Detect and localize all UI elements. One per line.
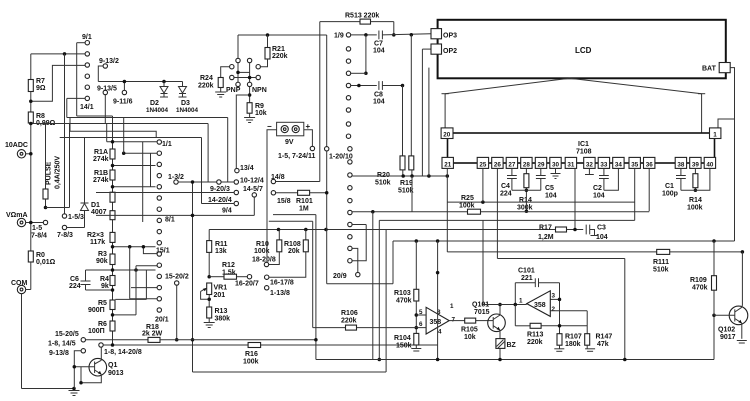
wire braid link x69.5 (69, 124, 71, 208)
resistor R21 (267, 35, 269, 48)
svg-text:20/1: 20/1 (155, 317, 169, 324)
svg-text:R6: R6 (98, 321, 107, 328)
contact 1-20/10 (325, 147, 329, 151)
svg-text:1-5, 7-24/11: 1-5, 7-24/11 (278, 153, 315, 160)
contact circle 1-5/3 (62, 214, 66, 218)
wire fan left to pin20 (444, 94, 446, 128)
ground R147 (586, 345, 588, 349)
junction D2 (162, 80, 166, 84)
svg-text:26: 26 (494, 161, 502, 168)
svg-text:21: 21 (444, 161, 452, 168)
svg-text:150k: 150k (396, 343, 412, 350)
wire VR1 bottom (208, 295, 210, 308)
wire 15/8 to R101 (276, 192, 298, 194)
pin 27 (506, 157, 517, 168)
capacitor C5 under pin29 (540, 168, 542, 175)
wire 9-13/5 down (104, 95, 106, 124)
svg-text:38: 38 (677, 161, 685, 168)
pin 34 (613, 157, 624, 168)
wire node link x136 (135, 266, 137, 315)
contact 14-20/4 (234, 190, 238, 194)
svg-text:R21: R21 (272, 46, 285, 53)
trimmer VR1 (207, 283, 212, 295)
resistor R11 (208, 230, 210, 241)
wire Q102 emitter down (741, 323, 743, 339)
wire col C 260 stub (352, 225, 366, 261)
wire C6 top node (86, 269, 156, 271)
wire braid H1 y117.5 (67, 117, 228, 119)
svg-text:R4: R4 (100, 276, 109, 283)
ground under pin30 (555, 168, 557, 173)
wire x70.7 braid link (69, 118, 71, 132)
wire 9/1 to left (77, 42, 85, 44)
contact circle 7-8/3 (62, 225, 66, 229)
wire y98.4 stub 14/1 (67, 97, 85, 99)
svg-text:274k: 274k (93, 156, 109, 163)
svg-text:9013: 9013 (108, 370, 124, 377)
svg-text:220k: 220k (341, 318, 357, 325)
svg-text:R113: R113 (527, 332, 543, 339)
wire 9-11/6 up (123, 82, 125, 91)
svg-text:C1: C1 (665, 183, 674, 190)
wire battery plus (304, 130, 313, 147)
svg-text:1: 1 (713, 132, 717, 139)
wire x714 up to Q102 base (713, 315, 715, 359)
svg-text:14/8: 14/8 (271, 174, 285, 181)
svg-text:6: 6 (419, 321, 423, 328)
svg-text:IC1: IC1 (578, 141, 589, 148)
resistor R1A (110, 149, 115, 159)
wire x365.9 vertical (365, 35, 367, 73)
contact 1-13/8 (265, 286, 269, 290)
svg-text:220k: 220k (272, 53, 288, 60)
svg-text:C101: C101 (518, 268, 535, 275)
wire Q1 base (74, 366, 94, 368)
contact 9/4 (234, 201, 238, 205)
svg-text:1N4004: 1N4004 (176, 107, 199, 114)
svg-text:2: 2 (552, 306, 556, 313)
wire Q101 collector up (499, 305, 501, 316)
svg-text:9/1: 9/1 (82, 34, 92, 41)
svg-text:33: 33 (600, 161, 608, 168)
svg-text:15/1: 15/1 (156, 248, 170, 255)
bus y202.1 (447, 201, 634, 203)
svg-text:9-13/8: 9-13/8 (49, 350, 69, 357)
svg-text:3: 3 (552, 293, 556, 300)
resistor R6 (110, 321, 115, 331)
junction 10ADC bus (29, 152, 33, 156)
IC1 box (448, 133, 715, 163)
svg-text:R513 220k: R513 220k (345, 13, 379, 20)
svg-text:34: 34 (615, 161, 623, 168)
wire LCD corner vertical (428, 68, 430, 177)
OP3 box (431, 29, 442, 39)
svg-text:9017: 9017 (720, 334, 736, 341)
svg-text:9-13/2: 9-13/2 (99, 58, 119, 65)
wire R103 to opamp chain (415, 301, 417, 333)
wire braid link x106.7 (106, 124, 108, 142)
svg-text:1/9: 1/9 (334, 33, 344, 40)
junction bottom ground (72, 387, 76, 391)
capacitor C7 (378, 31, 380, 40)
wire pin36 down (648, 168, 650, 211)
contact 15/8 (271, 191, 275, 195)
wire C7 right to OP3 (382, 34, 431, 35)
resistor R18 (148, 337, 160, 342)
svg-text:9/4: 9/4 (222, 208, 232, 215)
resistor ladder vertical wire (112, 159, 114, 170)
svg-text:13k: 13k (215, 248, 227, 255)
svg-text:1-5: 1-5 (32, 225, 42, 232)
junction fuse node (44, 206, 48, 210)
wire C6 bottom to ladder (86, 289, 113, 291)
svg-text:9V: 9V (285, 139, 294, 146)
svg-text:R16: R16 (245, 351, 258, 358)
resistor R19 (409, 156, 414, 170)
wire braid H2 y123.5 (31, 123, 208, 125)
contact circle 1-5 (43, 220, 47, 224)
wire C8 right (382, 85, 402, 87)
wire pin40 hook (681, 168, 710, 190)
wire x76.7 vertical (76, 43, 78, 116)
ground R104 (415, 345, 417, 349)
wire R19 net down (411, 176, 413, 212)
wire R106 pin6 (313, 327, 346, 329)
svg-text:R111: R111 (653, 259, 669, 266)
resistor R20 (400, 156, 405, 170)
svg-text:7108: 7108 (576, 149, 592, 156)
svg-text:20k: 20k (288, 248, 300, 255)
svg-text:16-17/8: 16-17/8 (270, 280, 294, 287)
svg-text:R1A: R1A (94, 149, 108, 156)
pin 36 (644, 157, 655, 168)
ground symbol bottom left (69, 390, 80, 392)
svg-text:180k: 180k (565, 341, 581, 348)
wire x64.5 vertical to 1-5/3 (64, 54, 66, 214)
wire col B vertical links (142, 142, 144, 222)
wire fuse bottom (45, 199, 47, 208)
transistor Q102 (729, 306, 748, 325)
wire 15-20/2 down to R18 wire (176, 285, 178, 340)
wire pin31 down to R17 node (574, 168, 576, 229)
ground symbol R9 (249, 113, 251, 117)
LCD connector fan (445, 78, 701, 93)
wire pin35 down to bus (634, 168, 636, 220)
svg-text:0,4A/250V: 0,4A/250V (55, 156, 62, 189)
svg-text:R11: R11 (215, 241, 228, 248)
wire loop y214.6 to bottom (273, 214, 316, 216)
capacitor C4 under pin27 (511, 168, 513, 175)
contact 14/8 (271, 179, 275, 183)
svg-text:R24: R24 (200, 75, 213, 82)
svg-text:Q1: Q1 (108, 362, 117, 369)
wire fan right to pin1 (701, 94, 703, 133)
pin 40 (704, 157, 715, 168)
wire opamp1 out to R105 (449, 320, 465, 322)
svg-text:104: 104 (593, 193, 605, 200)
svg-text:C6: C6 (70, 276, 79, 283)
wire R20 R19 bottoms to y176.3 (402, 170, 404, 176)
wire 1/1 horizontal (107, 141, 157, 143)
svg-text:9Ω: 9Ω (36, 85, 46, 92)
wire fuse top (45, 124, 47, 190)
resistor R5 (110, 300, 115, 310)
bus y211.3 R25 (352, 211, 467, 213)
svg-text:R0: R0 (36, 252, 45, 259)
wire BAT to pin1 rail (730, 68, 734, 241)
wire Q1 emitter loop (81, 367, 101, 383)
svg-text:7015: 7015 (474, 309, 490, 316)
wire COM to bus (26, 289, 31, 291)
wire stub row 298.8 (130, 298, 157, 300)
wire stub row 265.8 (136, 265, 157, 267)
junction ladder bottom (111, 343, 115, 347)
svg-text:274k: 274k (93, 177, 109, 184)
resistor R147 (585, 334, 590, 346)
svg-text:15-20/5: 15-20/5 (55, 331, 79, 338)
resistor R108 (305, 230, 307, 240)
svg-text:C8: C8 (374, 92, 383, 99)
svg-text:C3: C3 (597, 225, 606, 232)
wire battery minus to 18-20/8 (266, 261, 269, 264)
svg-text:9-20/3: 9-20/3 (210, 186, 230, 193)
resistor R2x3 (three in series) (110, 192, 115, 202)
wire stub row 287.6 (131, 287, 157, 289)
svg-text:R7: R7 (36, 78, 45, 85)
resistor R4 (110, 276, 115, 286)
svg-text:10ADC: 10ADC (5, 142, 28, 149)
wire x393 from 20/9 loop (392, 241, 394, 284)
wire left bus vertical (30, 54, 32, 80)
svg-text:C5: C5 (545, 185, 554, 192)
contact 16-17/8 (265, 275, 269, 279)
svg-text:4: 4 (438, 329, 442, 336)
svg-text:510k: 510k (398, 188, 414, 195)
wire ladder segments (112, 202, 114, 211)
resistor R14 100k under pin39 (694, 168, 696, 173)
wire C101 output branch vertical (559, 283, 561, 334)
resistor R7 (28, 80, 33, 92)
svg-text:OP2: OP2 (443, 48, 457, 55)
wire top y35 to socket (237, 35, 239, 58)
svg-text:104: 104 (545, 193, 557, 200)
wire R513 right vertical (393, 22, 395, 35)
svg-text:224: 224 (69, 283, 81, 290)
contact 16-20/7 (247, 275, 251, 279)
svg-text:31: 31 (567, 161, 575, 168)
svg-text:36: 36 (646, 161, 654, 168)
svg-text:1-5/3: 1-5/3 (68, 214, 84, 221)
capacitor C1 under pin38 (680, 168, 682, 175)
resistor R1B (110, 170, 115, 180)
R17 bus horizontal (209, 229, 555, 231)
wire OP2 net vertical (421, 49, 423, 176)
fuse element (43, 189, 48, 199)
wire pin34 hook to C2 (604, 168, 619, 190)
resistor R16 (248, 343, 261, 348)
svg-text:R3: R3 (98, 251, 107, 258)
svg-text:15/8: 15/8 (277, 198, 291, 205)
loop bottom y283.8 (327, 283, 393, 285)
svg-text:D3: D3 (181, 100, 190, 107)
svg-text:R13: R13 (215, 308, 228, 315)
junction VOmA bus (29, 221, 33, 225)
contact 1-5,7-24/11 (310, 146, 314, 150)
wire R113 net (514, 305, 516, 326)
svg-text:R12: R12 (222, 262, 235, 269)
svg-text:1M: 1M (299, 206, 309, 213)
svg-text:R19: R19 (400, 180, 413, 187)
diode D1 (84, 138, 86, 204)
wire R5 side hook (115, 298, 146, 300)
buzzer BZ (496, 339, 505, 349)
svg-text:R1B: R1B (94, 170, 108, 177)
contact 1-8,14-20/8 (99, 343, 103, 347)
svg-text:20/9: 20/9 (333, 273, 347, 280)
diode D2 (163, 82, 165, 87)
svg-text:100k: 100k (243, 359, 259, 366)
svg-text:100k: 100k (687, 205, 703, 212)
svg-text:10-12/4: 10-12/4 (240, 178, 264, 185)
pin 30 (550, 157, 561, 168)
pin 26 (492, 157, 503, 168)
wire x192.5 vertical (192, 182, 194, 372)
bus y220.4 (379, 219, 634, 221)
op-amp U1B 358 (527, 291, 551, 317)
wire bus below R8 (30, 123, 32, 251)
svg-text:510k: 510k (653, 267, 669, 274)
resistor R0 (28, 251, 33, 262)
capacitor C3 (585, 225, 587, 235)
wire column B row2 link (124, 152, 157, 154)
wire y54 horizontal (31, 53, 85, 55)
pin 32 (584, 157, 595, 168)
wire 9-13/2 down (98, 66, 103, 82)
wire col C 224 stub (352, 224, 366, 226)
ground tick after C3 (590, 230, 595, 236)
pin 21 (442, 157, 453, 168)
wire W1 R18 net (86, 339, 149, 341)
svg-text:32: 32 (586, 161, 594, 168)
wire 9/4 left (201, 203, 234, 205)
contact 10-12/4 (234, 180, 238, 184)
svg-text:30: 30 (552, 161, 560, 168)
switch column C contacts lower (348, 147, 352, 151)
wire COM down (21, 294, 23, 389)
svg-text:1,2M: 1,2M (538, 234, 554, 241)
resistor R113 (530, 323, 541, 328)
svg-text:1-8, 14-20/8: 1-8, 14-20/8 (104, 349, 142, 356)
svg-text:470k: 470k (692, 285, 708, 292)
wire 7-8/3 to D1 (67, 227, 85, 229)
wire R11 bottom (208, 252, 210, 276)
svg-text:47k: 47k (597, 341, 609, 348)
svg-text:35: 35 (631, 161, 639, 168)
svg-text:1-20/10: 1-20/10 (329, 154, 353, 161)
capacitor C8 (378, 81, 380, 90)
wire R513 left vertical (319, 22, 321, 182)
wire bus below R0 (30, 262, 32, 290)
svg-text:9-11/6: 9-11/6 (113, 99, 133, 106)
wire braid x227.7 down (227, 118, 229, 183)
svg-text:220k: 220k (198, 83, 214, 90)
junction bus y101 (29, 100, 33, 104)
pin 25 (477, 157, 488, 168)
contact 18-20/8 (264, 262, 268, 266)
svg-text:R2×3: R2×3 (87, 232, 104, 239)
wire 14/8 right (276, 181, 320, 183)
svg-text:25: 25 (479, 161, 487, 168)
bus y251.9 (447, 251, 656, 253)
svg-text:1: 1 (450, 303, 454, 310)
junction y54 (63, 52, 67, 56)
svg-text:R25: R25 (461, 195, 474, 202)
LCD box (438, 20, 726, 79)
contact 13/4 (235, 168, 239, 172)
svg-text:14-20/4: 14-20/4 (208, 197, 232, 204)
wire R14 bottom node (525, 188, 527, 212)
bus y241 long (393, 240, 735, 242)
wire C7 down to R19 (410, 35, 412, 156)
svg-text:40: 40 (706, 161, 714, 168)
wire 10ADC to bus (26, 153, 31, 155)
wire pin5 stub (416, 314, 426, 316)
svg-text:1/1: 1/1 (162, 141, 172, 148)
resistor R25 (468, 209, 481, 214)
svg-text:201: 201 (214, 292, 226, 299)
svg-text:C2: C2 (593, 185, 602, 192)
resistor R107 (557, 334, 562, 346)
svg-text:90k: 90k (96, 258, 108, 265)
svg-text:100p: 100p (662, 191, 678, 198)
wire y222 loop (269, 220, 313, 222)
wire R147 top (586, 311, 588, 334)
svg-text:PNP: PNP (226, 87, 241, 94)
wire braid y116 to ladder (77, 115, 113, 117)
transistor Q1 (89, 358, 107, 376)
svg-text:C4: C4 (501, 183, 510, 190)
wire 1-3/2 to 10-12/4 (178, 181, 234, 183)
svg-text:PULSE: PULSE (46, 161, 53, 185)
wire ladder node stubs to column B (113, 165, 156, 167)
svg-text:7-8/3: 7-8/3 (57, 232, 73, 239)
svg-text:2k 2W: 2k 2W (142, 331, 163, 338)
svg-text:8/1: 8/1 (165, 217, 175, 224)
wire diode bus y81.5 (98, 81, 182, 83)
svg-text:13/4: 13/4 (240, 165, 254, 172)
pin 31 (565, 157, 576, 168)
resistor R101 (298, 190, 310, 195)
wire VOmA to contact (26, 222, 44, 224)
pin 28 (521, 157, 532, 168)
resistor R105 (465, 318, 476, 323)
svg-text:380k: 380k (215, 316, 231, 323)
svg-text:VΩmA: VΩmA (6, 212, 28, 219)
resistor R14 300k under pin28 (525, 168, 527, 173)
resistor R13 (207, 307, 212, 318)
wire x386.1 up to R17 bus (385, 230, 387, 373)
svg-text:R5: R5 (98, 300, 107, 307)
pin 33 (598, 157, 609, 168)
svg-text:18-20/8: 18-20/8 (252, 257, 276, 264)
resistor R109 (713, 241, 715, 276)
wire R16 right (261, 344, 438, 346)
wire x372.8 down to bottom (372, 212, 374, 360)
pin 20 (441, 128, 453, 139)
svg-text:470k: 470k (396, 298, 412, 305)
socket internal wires (237, 63, 239, 82)
wire R101 right (310, 192, 327, 194)
